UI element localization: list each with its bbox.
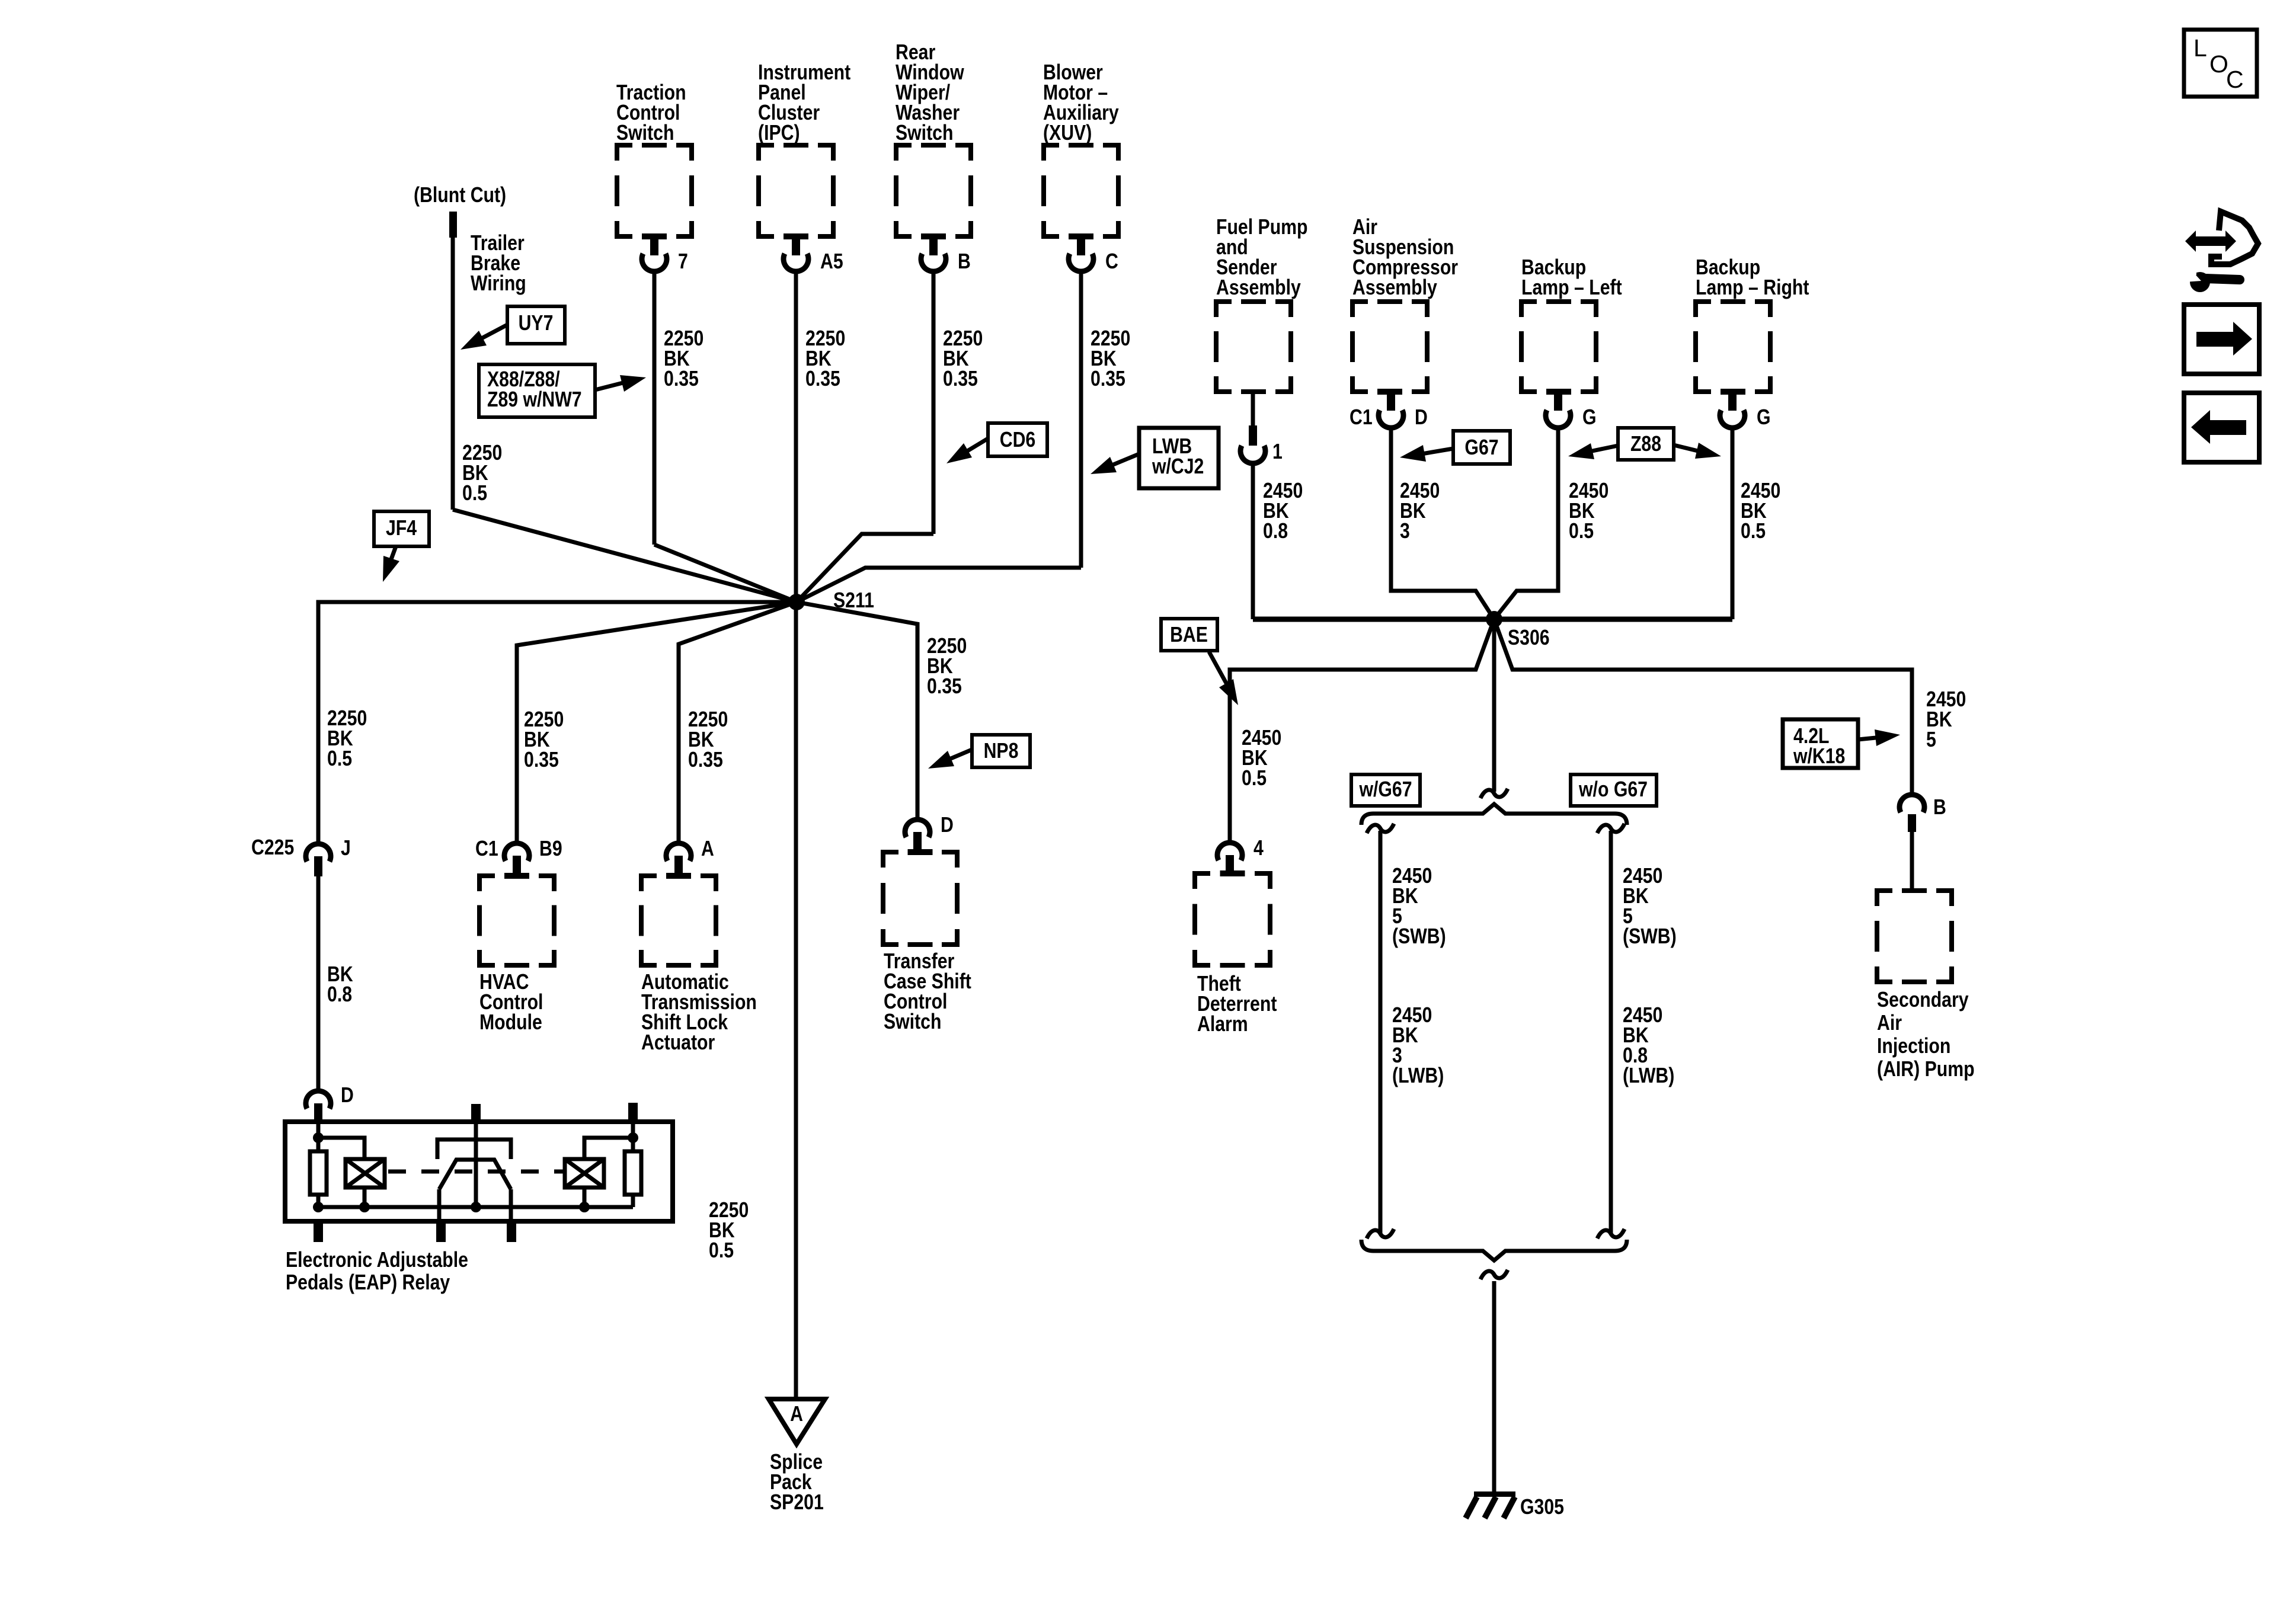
option box CD6 (988, 423, 1047, 456)
svg-text:Actuator: Actuator (641, 1031, 715, 1055)
vehicle-with-wrench icon outline (2211, 212, 2258, 264)
svg-text:G305: G305 (1520, 1496, 1564, 1519)
relay junction dot bus coil-right (579, 1202, 590, 1212)
svg-text:w/K18: w/K18 (1793, 745, 1845, 769)
svg-text:0.35: 0.35 (1091, 367, 1125, 391)
component box HVAC control module (479, 876, 554, 965)
svg-text:0.35: 0.35 (927, 675, 962, 699)
pin of shift lock connector (674, 856, 683, 874)
relay wire resistor right to bus (631, 1195, 635, 1207)
wire traction vertical (653, 271, 657, 545)
wire fuel pump down (1251, 463, 1255, 619)
svg-text:A: A (701, 837, 714, 861)
wire IPC vertical through S211 to splice pack (794, 271, 798, 1399)
pin of IPC (792, 236, 800, 255)
relay junction dot top-left (313, 1132, 324, 1143)
svg-text:S306: S306 (1508, 626, 1550, 650)
connector cup IPC A5 (784, 254, 808, 271)
relay top pin right (628, 1103, 638, 1121)
wire blower vertical (1079, 271, 1083, 568)
svg-text:G67: G67 (1464, 436, 1498, 460)
pin of backup lamp right (1728, 392, 1737, 411)
relay coil left box (346, 1159, 385, 1188)
svg-text:0.5: 0.5 (1569, 520, 1594, 543)
wire S306 to theft deterrent (1230, 619, 1494, 841)
svg-text:UY7: UY7 (519, 312, 554, 335)
svg-text:Z88: Z88 (1630, 433, 1661, 456)
arrow from CD6 to rear window wire (962, 438, 988, 454)
svg-text:(SWB): (SWB) (1623, 925, 1677, 949)
arrow from UY7 to trailer wire (477, 325, 507, 341)
relay coil right box (565, 1159, 604, 1188)
wire backup right down (1731, 428, 1735, 619)
pin of C225 connector (314, 856, 322, 876)
relay coil right X (565, 1159, 604, 1188)
arrow from 4.2L box to secondary air wire (1858, 737, 1882, 740)
relay resistor left (310, 1151, 327, 1195)
svg-text:Switch: Switch (616, 121, 674, 145)
left alternative wire (1379, 831, 1383, 1234)
svg-text:1: 1 (1272, 440, 1283, 464)
wire rear window jog (797, 534, 933, 602)
break squiggle bottom of left alternative (1367, 1229, 1394, 1238)
relay wire coil left to bus (363, 1188, 367, 1207)
wire S306 centre down (1492, 619, 1496, 792)
svg-text:w/o G67: w/o G67 (1578, 778, 1648, 802)
relay bottom bus (318, 1205, 633, 1209)
right alternative wire (1609, 831, 1613, 1234)
svg-text:Switch: Switch (896, 121, 953, 145)
pin of traction control switch (650, 236, 658, 255)
svg-text:0.5: 0.5 (1741, 520, 1766, 543)
svg-text:C1: C1 (475, 837, 498, 861)
option box UY7 (507, 306, 565, 344)
relay bottom pin centre-right (507, 1221, 516, 1242)
pin of HVAC connector (513, 856, 521, 874)
svg-text:J: J (341, 837, 351, 860)
svg-text:B9: B9 (539, 837, 562, 861)
svg-text:0.35: 0.35 (688, 748, 723, 772)
svg-text:Z89 w/NW7: Z89 w/NW7 (487, 388, 582, 412)
relay wire to left coil (318, 1138, 364, 1159)
svg-text:4: 4 (1253, 837, 1264, 860)
relay wire to right coil (584, 1138, 633, 1159)
arrow from LWB box to blower wire (1108, 454, 1139, 467)
connector cup backup right G (1720, 410, 1745, 428)
splice dot S306 (1486, 611, 1502, 628)
relay box EAP (285, 1122, 673, 1221)
wire C225 to EAP relay (316, 876, 321, 1089)
connector cup transfer case D (905, 820, 930, 837)
connector cup traction 7 (642, 254, 667, 271)
break squiggle below S306 wire (1480, 789, 1508, 798)
svg-text:0.8: 0.8 (1263, 520, 1288, 543)
wire air suspension down (1391, 428, 1494, 619)
svg-text:(AIR) Pump: (AIR) Pump (1877, 1058, 1975, 1081)
svg-text:G: G (1757, 406, 1771, 430)
wire S306 to secondary air pump (1494, 619, 1912, 792)
legend box next-page arrow right (2184, 305, 2259, 374)
connector cup backup left G (1546, 410, 1571, 428)
svg-text:Assembly: Assembly (1216, 276, 1301, 300)
relay dashed actuating link (388, 1170, 565, 1174)
svg-text:Module: Module (479, 1011, 542, 1035)
vehicle-with-wrench icon double arrow (2185, 231, 2236, 252)
component box fuel pump sender assembly (1216, 302, 1291, 392)
svg-text:A5: A5 (820, 250, 843, 274)
wire rear window vertical (932, 271, 936, 534)
option box X88/Z88/Z89 w/NW7 (479, 364, 595, 417)
lower alternation brace (1361, 1240, 1627, 1260)
arrow from JF4 to left branch wire (389, 546, 396, 564)
wire secondary air to pump (1910, 832, 1914, 891)
svg-text:JF4: JF4 (386, 517, 417, 540)
inline pin secondary air (1908, 814, 1916, 832)
relay contact trapezoid (439, 1160, 511, 1189)
connector cup air suspension D (1379, 410, 1403, 428)
component box IPC (759, 145, 833, 236)
svg-text:w/G67: w/G67 (1359, 778, 1412, 802)
component box blower motor auxiliary (1044, 145, 1118, 236)
relay contact left leg (437, 1189, 442, 1221)
svg-text:3: 3 (1400, 520, 1410, 543)
svg-text:D: D (1415, 406, 1428, 430)
arrow from Z88 to backup left wire (1587, 446, 1618, 452)
component box secondary air injection pump (1877, 891, 1952, 982)
svg-text:Wiring: Wiring (471, 272, 526, 296)
svg-text:0.5: 0.5 (462, 482, 487, 505)
pin of air suspension compressor (1387, 392, 1395, 411)
wire fuel pump to inline connector (1251, 392, 1255, 428)
svg-text:(LWB): (LWB) (1392, 1064, 1444, 1088)
component box theft deterrent alarm (1195, 873, 1270, 965)
option box G67 (1453, 431, 1510, 464)
svg-text:Alarm: Alarm (1197, 1013, 1248, 1036)
relay contact top bracket (437, 1140, 511, 1159)
break squiggle above ground wire (1480, 1270, 1508, 1279)
vehicle-with-wrench icon wrench (2190, 272, 2210, 292)
wire S211 to HVAC column (517, 602, 797, 841)
svg-text:0.5: 0.5 (1242, 767, 1267, 790)
arrow from BAE to theft wire (1209, 652, 1229, 689)
wire traction diagonal to S211 (654, 545, 797, 602)
svg-text:Electronic Adjustable: Electronic Adjustable (286, 1249, 468, 1272)
inline pin fuel pump (1249, 425, 1257, 446)
wire blower jog to S211 (797, 568, 1081, 602)
wire trailer brake vertical (451, 238, 455, 510)
svg-text:G: G (1582, 406, 1597, 430)
wire backup left down (1494, 428, 1558, 619)
break squiggle bottom of right alternative (1597, 1229, 1625, 1238)
svg-text:0.35: 0.35 (524, 748, 559, 772)
pin of theft deterrent (1226, 855, 1234, 873)
svg-text:Assembly: Assembly (1352, 276, 1437, 300)
arrow from G67 to air suspension wire (1418, 449, 1453, 454)
svg-text:CD6: CD6 (1000, 428, 1035, 452)
main ground bus through S306 (1253, 617, 1732, 622)
LOC legend box (2184, 30, 2257, 97)
legend box previous-page arrow left (2184, 393, 2259, 462)
svg-text:D: D (941, 814, 954, 837)
ground symbol G305 (1474, 1491, 1515, 1497)
upper alternation brace (1361, 804, 1627, 825)
svg-text:NP8: NP8 (984, 740, 1019, 763)
arrow from X88 box to traction wire (595, 382, 628, 390)
wire S211 to shift lock column (679, 602, 797, 841)
relay wire coil right to bus (583, 1188, 587, 1207)
connector cup EAP D (306, 1091, 331, 1109)
relay junction dot bus left (313, 1202, 324, 1212)
option box NP8 (972, 735, 1030, 767)
svg-text:Air: Air (1877, 1012, 1902, 1035)
connector cup theft deterrent 4 (1217, 843, 1242, 860)
svg-text:C: C (1105, 250, 1118, 274)
relay junction dot bus centre (471, 1202, 481, 1212)
component box backup lamp right (1696, 302, 1770, 392)
svg-text:(XUV): (XUV) (1043, 121, 1092, 145)
wire to ground G305 (1492, 1281, 1496, 1494)
relay coil left X (346, 1159, 385, 1188)
relay bottom pin centre-left (436, 1221, 446, 1242)
svg-text:C: C (2226, 66, 2244, 93)
connector cup blower C (1069, 254, 1093, 271)
svg-text:0.35: 0.35 (805, 367, 840, 391)
svg-text:(SWB): (SWB) (1392, 925, 1446, 949)
svg-text:0.35: 0.35 (664, 367, 699, 391)
relay junction dot top-right (628, 1132, 638, 1143)
relay centre wire (474, 1122, 478, 1207)
relay junction dot bus coil-left (359, 1202, 370, 1212)
relay right vertical wire (631, 1121, 635, 1151)
component box transfer case shift control switch (883, 852, 957, 945)
svg-text:0.5: 0.5 (709, 1239, 734, 1263)
pin of backup lamp left (1554, 392, 1562, 411)
connector cup rear window B (921, 254, 946, 271)
option box BAE (1161, 619, 1217, 651)
option box w/G67 (1351, 774, 1420, 806)
svg-text:w/CJ2: w/CJ2 (1152, 455, 1204, 479)
svg-text:L: L (2193, 34, 2207, 62)
arrow from Z88 to backup right wire (1674, 445, 1703, 452)
splice dot S211 (788, 594, 805, 610)
splice pack triangle A (769, 1399, 825, 1444)
svg-text:Lamp – Left: Lamp – Left (1521, 276, 1622, 300)
relay resistor right (625, 1151, 641, 1195)
svg-text:0.35: 0.35 (943, 367, 978, 391)
left branch wire from S211 (JF4) (318, 602, 797, 842)
wire S211 to transfer case column (797, 602, 917, 817)
component box air suspension compressor (1352, 302, 1427, 392)
relay contact right leg (509, 1189, 513, 1221)
relay top pin centre (471, 1104, 481, 1122)
option box w/o G67 (1571, 774, 1657, 806)
svg-text:D: D (341, 1084, 354, 1108)
svg-text:Injection: Injection (1877, 1035, 1950, 1058)
option box 4.2L w/K18 (1783, 719, 1858, 768)
pin of blower motor (1077, 236, 1085, 255)
component box shift lock actuator (641, 876, 716, 965)
option box JF4 (374, 511, 429, 546)
connector cup C225 J (306, 844, 331, 862)
pin of rear window switch (929, 236, 938, 255)
option box Z88 (1618, 428, 1674, 460)
svg-text:0.8: 0.8 (327, 983, 352, 1007)
connector cup HVAC B9 (504, 843, 529, 861)
svg-text:B: B (1933, 796, 1946, 820)
svg-text:Switch: Switch (884, 1010, 941, 1034)
connector cup shift lock A (666, 843, 691, 861)
svg-text:B: B (958, 250, 971, 274)
svg-text:0.5: 0.5 (327, 747, 352, 771)
component box Traction Control Switch (617, 145, 692, 236)
svg-text:SP201: SP201 (770, 1491, 824, 1515)
wire trailer brake diagonal to S211 (453, 510, 797, 602)
svg-text:S211: S211 (833, 589, 874, 613)
svg-text:(IPC): (IPC) (758, 121, 800, 145)
option box LWB w/CJ2 (1139, 428, 1219, 488)
svg-text:5: 5 (1926, 728, 1936, 752)
relay left vertical wire (316, 1122, 321, 1207)
break squiggle top of left alternative (1367, 824, 1394, 833)
svg-text:(LWB): (LWB) (1623, 1064, 1674, 1088)
connector cup secondary air B (1900, 795, 1924, 812)
break squiggle top of right alternative (1597, 824, 1625, 833)
pin into EAP relay (314, 1103, 322, 1122)
svg-text:7: 7 (678, 250, 688, 274)
svg-text:BAE: BAE (1170, 623, 1208, 647)
svg-text:Secondary: Secondary (1877, 988, 1969, 1012)
arrow from NP8 to transfer case wire (945, 750, 972, 761)
svg-text:A: A (790, 1403, 803, 1426)
svg-text:C225: C225 (251, 836, 294, 860)
svg-text:Lamp – Right: Lamp – Right (1696, 276, 1809, 300)
component box backup lamp left (1521, 302, 1596, 392)
pin of transfer case connector (913, 832, 922, 853)
svg-text:Pedals (EAP) Relay: Pedals (EAP) Relay (286, 1271, 450, 1295)
component box rear window wiper washer switch (896, 145, 971, 236)
connector cup fuel pump 1 (1240, 446, 1265, 463)
relay bottom pin left (314, 1221, 323, 1242)
blunt cut terminal for trailer brake wiring (449, 212, 457, 238)
svg-text:(Blunt Cut): (Blunt Cut) (414, 184, 506, 207)
svg-text:C1: C1 (1350, 406, 1373, 430)
